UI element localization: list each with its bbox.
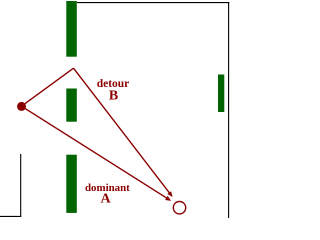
detector circle (173, 202, 185, 214)
slit wall bottom bar (66, 155, 77, 213)
frame bottom-left vertical line (20, 154, 22, 216)
slit wall top bar (66, 1, 77, 57)
right screen bar (218, 75, 224, 113)
source dot (17, 102, 26, 111)
frame bottom-left horizontal line (0, 215, 21, 217)
svg-text:A: A (101, 192, 112, 207)
path A line source to detector (22, 106, 169, 199)
frame top line (77, 2, 229, 4)
slit wall middle bar (66, 89, 77, 122)
path B segment slit 1 to detector (74, 68, 171, 195)
frame right line (228, 2, 230, 218)
path B segment source to slit 1 (22, 68, 74, 106)
svg-text:B: B (109, 89, 118, 104)
path B arrowhead (167, 191, 172, 197)
path A arrowhead (165, 196, 171, 201)
